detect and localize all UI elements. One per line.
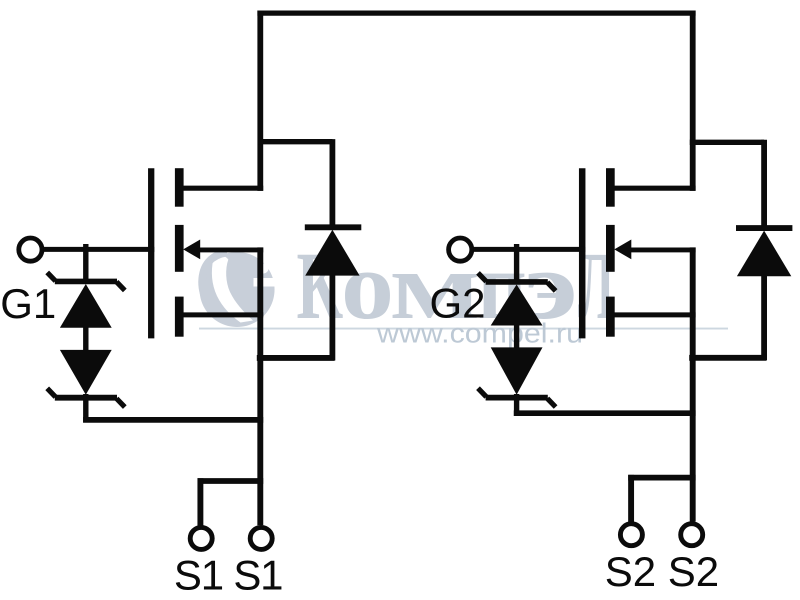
transistor Q1 gate electrode	[148, 168, 154, 338]
wire branch to diode D2 cathode	[690, 140, 764, 145]
transistor Q2 gate electrode	[579, 168, 586, 338]
transistor Q2 body arrow	[614, 240, 631, 260]
wire S2 branch	[628, 475, 695, 481]
wire D1 cathode vertical	[329, 139, 335, 225]
wire zener Z1 top stub	[83, 244, 88, 281]
diode D2 triangle	[737, 231, 791, 277]
transistor Q1 body arrow	[183, 240, 200, 260]
wire S1 left pin vertical	[197, 478, 203, 525]
terminal S1 right circle	[250, 527, 272, 549]
zener Z4 cathode wing left	[478, 388, 486, 397]
terminal S2 right circle	[681, 524, 703, 546]
wire gate-return to source S1	[83, 417, 263, 423]
wire zener Z2 bottom stub	[83, 394, 88, 423]
wire Q1 source net vertical	[257, 247, 263, 525]
wire left drain vertical	[257, 11, 263, 191]
wire D2 anode vertical	[761, 274, 767, 360]
zener Z4 triangle	[491, 347, 543, 394]
wire G2 lead	[474, 247, 586, 252]
zener Z3 cathode wing right	[547, 282, 555, 291]
zener Z3 cathode bar	[486, 279, 548, 285]
wire G1 lead	[44, 247, 155, 252]
terminal G1 circle	[19, 238, 42, 261]
terminal S2 left circle	[620, 524, 642, 546]
wire right drain vertical	[690, 11, 696, 191]
wire D1 anode vertical	[329, 273, 335, 361]
svg-text:S2 S2: S2 S2	[605, 548, 719, 595]
zener Z2 cathode bar	[55, 395, 117, 401]
zener Z3 cathode wing left	[478, 273, 486, 282]
zener Z1 cathode bar	[55, 279, 117, 285]
zener Z4 cathode bar	[486, 395, 548, 401]
wire top bus	[257, 10, 695, 15]
transistor Q1 source bar	[175, 297, 184, 337]
zener Z1 triangle	[60, 284, 112, 328]
wire zener middle stub right	[514, 323, 519, 349]
wire branch to diode D1 cathode	[258, 139, 333, 144]
wire Q2 body lead	[627, 247, 696, 252]
wire Q2 source net vertical	[690, 247, 696, 521]
wire S2 left pin vertical	[628, 475, 634, 522]
wire D1 anode to source	[257, 355, 335, 361]
wire zener middle stub	[83, 325, 88, 351]
zener Z4 cathode wing right	[547, 398, 555, 407]
terminal G2 circle	[449, 238, 472, 261]
transistor Q2 source bar	[606, 297, 615, 337]
wire Q1 source lead	[182, 312, 263, 317]
transistor Q1 body bar	[175, 225, 184, 272]
wire D2 anode to source	[689, 355, 766, 361]
svg-text:G1: G1	[0, 280, 56, 327]
transistor Q2 drain bar	[606, 168, 615, 207]
diode D1 triangle	[305, 230, 359, 276]
zener Z2 cathode wing right	[117, 399, 125, 408]
wire zener Z3 top stub	[514, 244, 519, 282]
wire D2 cathode vertical	[761, 140, 767, 226]
wire gate-return to source S2	[514, 410, 696, 416]
diode D1 cathode bar	[305, 224, 362, 230]
zener Z1 cathode wing left	[47, 272, 55, 281]
diode D2 cathode bar	[736, 225, 792, 231]
zener Z3 triangle	[491, 285, 543, 326]
svg-text:S1 S1: S1 S1	[174, 552, 282, 599]
svg-text:G2: G2	[430, 280, 486, 327]
watermark (decorative)	[199, 232, 728, 349]
wire Q1 drain lead	[182, 186, 263, 191]
zener Z2 cathode wing left	[47, 388, 55, 397]
wire Q2 source lead	[613, 312, 696, 317]
transistor Q2 body bar	[606, 225, 615, 272]
transistor Q1 drain bar	[175, 168, 184, 207]
wire S1 branch	[198, 478, 264, 484]
wire Q2 drain lead	[613, 186, 696, 191]
wire Q1 body lead	[196, 247, 263, 252]
zener Z2 triangle	[60, 350, 112, 395]
zener Z1 cathode wing right	[117, 282, 125, 291]
terminal S1 left circle	[190, 527, 212, 549]
wire zener Z4 bottom stub	[514, 394, 519, 416]
